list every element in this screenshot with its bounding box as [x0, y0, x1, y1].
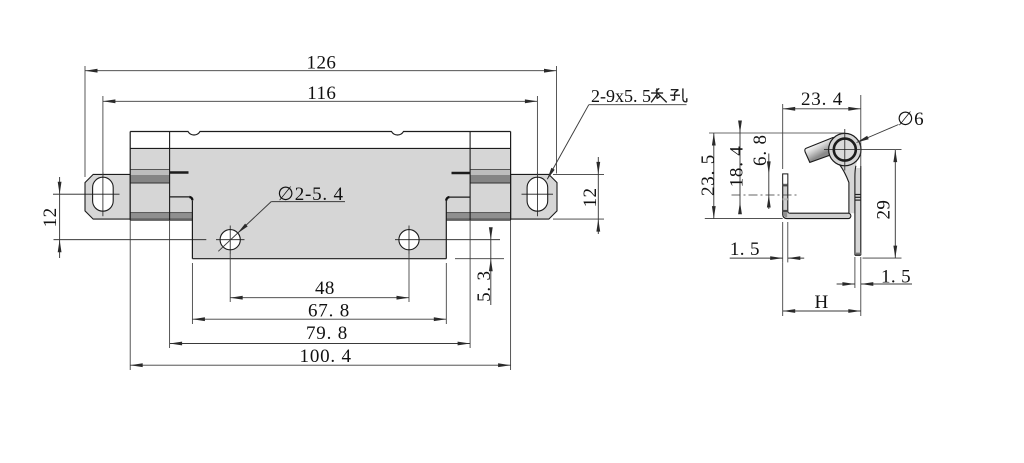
svg-text:∅2-5. 4: ∅2-5. 4 [277, 184, 343, 205]
svg-text:∅6: ∅6 [897, 109, 924, 130]
svg-text:12: 12 [580, 188, 601, 208]
svg-text:2-9x5. 5: 2-9x5. 5 [591, 86, 651, 106]
svg-text:79. 8: 79. 8 [306, 323, 348, 344]
svg-text:67. 8: 67. 8 [308, 300, 350, 321]
svg-text:6. 8: 6. 8 [750, 134, 771, 166]
svg-text:H: H [814, 292, 828, 313]
svg-text:126: 126 [307, 53, 337, 74]
svg-text:18. 4: 18. 4 [727, 145, 748, 187]
svg-text:48: 48 [315, 278, 335, 299]
svg-text:5. 3: 5. 3 [474, 270, 495, 302]
svg-text:100. 4: 100. 4 [300, 346, 352, 367]
svg-text:1. 5: 1. 5 [730, 239, 760, 260]
svg-text:116: 116 [307, 83, 336, 104]
svg-text:23. 5: 23. 5 [698, 154, 719, 196]
svg-text:23. 4: 23. 4 [801, 89, 843, 110]
svg-text:12: 12 [40, 207, 61, 227]
svg-text:1. 5: 1. 5 [881, 267, 911, 288]
svg-text:29: 29 [874, 200, 895, 220]
